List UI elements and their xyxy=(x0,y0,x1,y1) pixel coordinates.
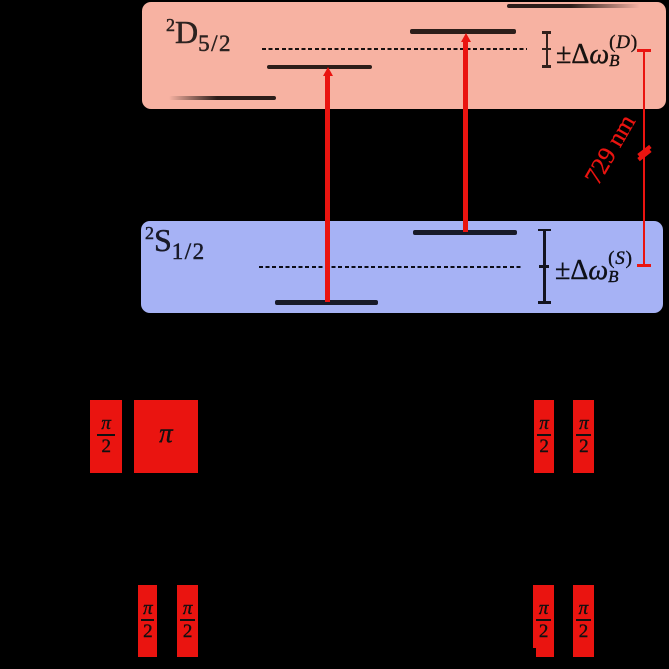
line break mark xyxy=(637,144,651,157)
+/- Delta omega_B^(D) label xyxy=(556,34,638,71)
S centroid dashed line xyxy=(259,266,523,268)
729nm line bottom cap xyxy=(637,264,652,267)
S Zeeman bracket xyxy=(543,230,546,303)
S level m=-1/2 xyxy=(275,300,378,305)
D Zeeman bracket xyxy=(546,31,549,68)
transition arrow 1 shaft xyxy=(325,74,331,302)
D level m=+5/2 (top, fading right) xyxy=(507,4,640,9)
D level m=-3/2 xyxy=(267,65,372,70)
D level m=+3/2 xyxy=(410,29,516,34)
S level m=+1/2 xyxy=(413,230,517,235)
transition arrow 2 shaft xyxy=(463,41,469,232)
+/- Delta omega_B^(S) label xyxy=(555,250,633,287)
transition arrow 1 head xyxy=(323,67,333,76)
2D5/2 label xyxy=(166,14,232,57)
pulse pi row1 box2 xyxy=(134,400,198,473)
pulse pi/2 row1 box4 xyxy=(573,400,594,473)
729nm line top cap xyxy=(637,49,652,52)
S1/2 manifold box xyxy=(141,221,663,313)
D centroid dashed line xyxy=(262,48,527,50)
pulse pi/2 row2 box2 xyxy=(177,585,198,657)
729 nm label xyxy=(579,108,643,191)
transition arrow 2 head xyxy=(461,33,471,42)
pulse pi/2 row1 box1 xyxy=(90,400,122,473)
pulse pi/2 row2 box3 xyxy=(533,585,554,657)
729nm distance line xyxy=(643,51,645,267)
notch overlap on row2 box3 xyxy=(531,648,536,657)
D level m=-5/2 (bottom, fading left) xyxy=(169,96,276,101)
pulse pi/2 row1 box3 xyxy=(534,400,554,473)
pulse pi/2 row2 box4 xyxy=(573,585,594,657)
pulse pi/2 row2 box1 xyxy=(138,585,157,657)
D5/2 manifold box xyxy=(142,2,666,109)
2S1/2 label xyxy=(145,222,206,265)
